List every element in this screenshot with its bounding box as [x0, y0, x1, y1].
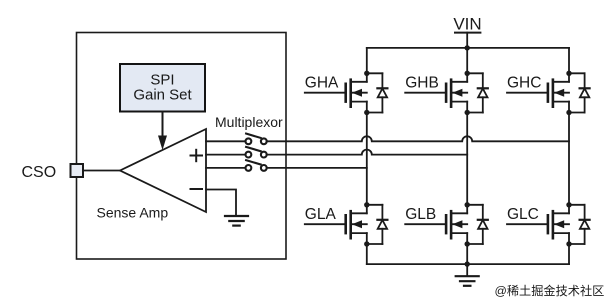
op-amp + input mark [191, 150, 203, 161]
wire op-amp to switch S1 [206, 140, 246, 142]
transistor Q5 GLB low side [405, 202, 488, 247]
wire switch S3 to phase A [267, 167, 367, 169]
node VIN junction dot [465, 45, 470, 50]
wire Q5 source to bottom rail [466, 244, 468, 264]
wire phase C node [568, 113, 570, 205]
svg-text:Gain Set: Gain Set [133, 87, 192, 104]
wire rail to Q1 drain [366, 48, 368, 73]
wire CSO pin to op-amp output [83, 170, 120, 172]
wire VIN to top rail [466, 33, 468, 48]
wire op-amp to switch S3 [206, 167, 246, 169]
wire rail to Q2 drain [466, 48, 468, 73]
node ground junction dot [465, 261, 470, 266]
ground at bottom rail [456, 276, 479, 286]
wire op-amp to switch S2 [206, 154, 246, 156]
svg-text:GLC: GLC [507, 206, 539, 223]
ground at op-amp minus input [225, 216, 248, 226]
svg-text:GLB: GLB [405, 206, 436, 223]
wire phase B node [466, 113, 468, 205]
wire switch S1 to phase C with hops over phase A and B [267, 136, 569, 141]
VIN supply bar [455, 32, 480, 34]
wire top rail [367, 47, 569, 49]
transistor Q4 GLA low side [305, 202, 388, 247]
svg-text:Sense Amp: Sense Amp [97, 205, 169, 221]
svg-text:GHC: GHC [507, 75, 541, 92]
SPI Gain Set box U2 [120, 64, 205, 112]
transistor Q3 GHC high side [507, 71, 590, 116]
svg-text:VIN: VIN [453, 15, 481, 34]
svg-text:GHA: GHA [305, 75, 339, 92]
wire rail to Q3 drain [568, 48, 570, 73]
svg-text:GLA: GLA [305, 206, 337, 223]
op-amp U1 Sense Amp [120, 129, 206, 212]
switch S2 [246, 147, 267, 158]
CSO terminal square [71, 164, 84, 177]
svg-text:CSO: CSO [22, 164, 57, 181]
gain-control arrow from SPI box to op-amp [162, 112, 164, 138]
sense amp module block [77, 33, 287, 260]
wire Q6 source to bottom rail [568, 244, 570, 264]
transistor Q2 GHB high side [405, 71, 488, 116]
wire Q4 source to bottom rail [366, 244, 368, 264]
switch S3 [246, 160, 267, 171]
wire bottom rail [367, 263, 569, 265]
svg-text:@稀土掘金技术社区: @稀土掘金技术社区 [495, 283, 605, 298]
svg-text:Multiplexor: Multiplexor [215, 114, 283, 130]
wire phase A node [366, 113, 368, 205]
switch S1 [246, 134, 267, 145]
transistor Q6 GLC low side [507, 202, 590, 247]
wire rail to ground [466, 264, 468, 276]
wire switch S2 to phase B with hop over phase A [267, 150, 468, 155]
transistor Q1 GHA high side [305, 71, 388, 116]
wire op-amp minus input to ground [206, 190, 236, 216]
op-amp - input mark [191, 188, 203, 190]
svg-text:GHB: GHB [405, 75, 439, 92]
